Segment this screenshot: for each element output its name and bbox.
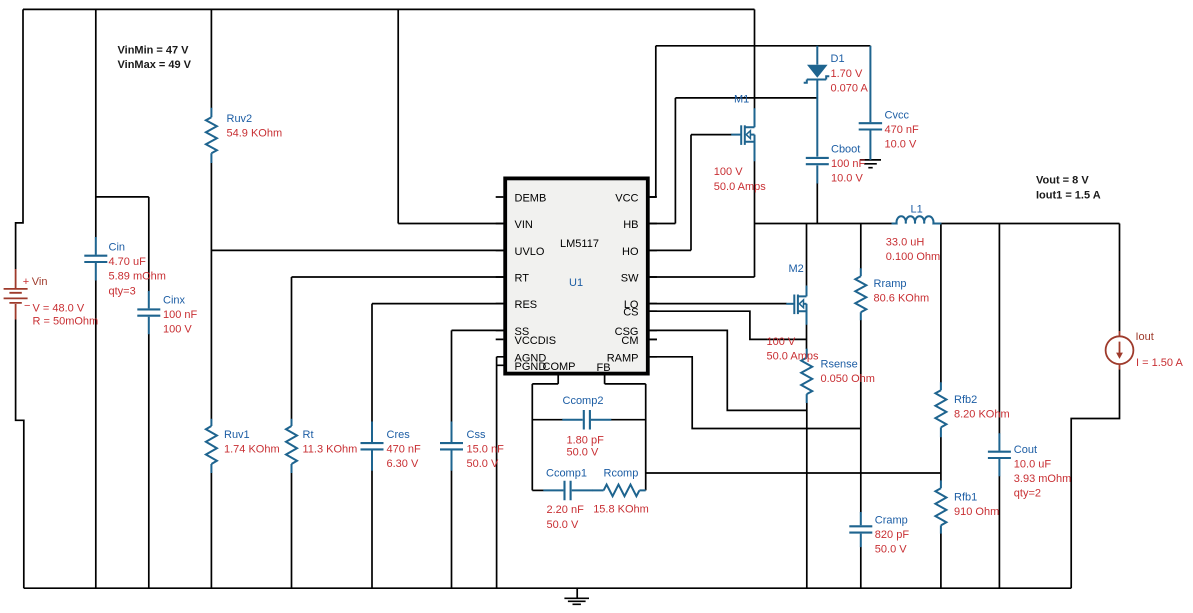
wire M2 drain to SW <box>806 224 808 286</box>
svg-text:+: + <box>23 276 29 288</box>
resistor Ruv2 <box>206 108 217 163</box>
svg-text:Rsense: Rsense <box>821 359 858 371</box>
svg-text:15.8 KOhm: 15.8 KOhm <box>593 504 649 516</box>
transistor M2 (N-MOSFET) <box>786 286 806 325</box>
wire VCC net <box>648 46 870 197</box>
svg-text:Ccomp2: Ccomp2 <box>563 395 604 407</box>
wire Rramp top to SW <box>860 224 862 269</box>
svg-text:Iout: Iout <box>1136 331 1154 343</box>
svg-text:I = 1.50 A: I = 1.50 A <box>1136 357 1183 369</box>
resistor Rcomp <box>592 485 646 497</box>
label Cres <box>387 429 422 470</box>
svg-text:Cboot: Cboot <box>831 144 860 156</box>
wire Cinx bottom <box>148 334 150 588</box>
svg-text:M2: M2 <box>789 263 804 275</box>
wire Ruv2 to Ruv1 <box>210 163 212 420</box>
svg-text:8.20 KOhm: 8.20 KOhm <box>954 408 1010 420</box>
svg-text:FB: FB <box>597 362 611 374</box>
label Cin <box>109 242 166 298</box>
svg-text:11.3 KOhm: 11.3 KOhm <box>303 443 358 455</box>
wire Cout branch <box>998 224 1000 589</box>
svg-text:10.0 uF: 10.0 uF <box>1014 458 1052 470</box>
label output conditions <box>1036 174 1101 201</box>
diode D1 (schottky) <box>804 46 830 157</box>
wire HB to Cboot <box>648 98 817 224</box>
wire CM stub <box>648 338 657 340</box>
capacitor Cboot <box>806 158 829 164</box>
label Rfb1 <box>954 492 999 519</box>
svg-text:Iout1 = 1.5 A: Iout1 = 1.5 A <box>1036 189 1101 201</box>
svg-text:Cinx: Cinx <box>163 294 186 306</box>
svg-text:100 nF: 100 nF <box>831 158 866 170</box>
svg-text:HB: HB <box>623 219 638 231</box>
wire Rfb2 branch <box>940 224 942 474</box>
svg-text:CM: CM <box>621 335 638 347</box>
wire CS net <box>648 311 807 339</box>
label M1 <box>714 93 766 193</box>
wire Cinx top <box>148 197 150 292</box>
wire Rt column <box>291 277 293 588</box>
wire Css column <box>451 330 453 588</box>
label Cboot <box>831 144 866 185</box>
resistor Rsense <box>801 349 812 403</box>
svg-text:50.0 V: 50.0 V <box>567 447 599 459</box>
wire Cin bottom <box>95 280 97 588</box>
svg-text:HO: HO <box>622 246 639 258</box>
wire Vin negative lead <box>16 320 24 589</box>
capacitor Ccomp2 <box>562 410 611 430</box>
label Css <box>467 429 505 470</box>
svg-text:10.0 V: 10.0 V <box>831 173 863 185</box>
svg-text:Vin: Vin <box>32 276 48 288</box>
transistor M1 (N-MOSFET) <box>731 108 754 161</box>
wire Ccomp1 row left <box>532 489 543 491</box>
wire Cboot bottom to SW <box>816 183 818 224</box>
svg-text:50.0 Amps: 50.0 Amps <box>767 350 819 362</box>
voltage source Vin (battery) <box>4 269 28 320</box>
U1 pin stubs left <box>496 197 504 339</box>
label Rsense <box>821 359 875 386</box>
capacitor Cramp <box>849 512 872 547</box>
svg-text:Rfb2: Rfb2 <box>954 394 977 406</box>
capacitor Cin <box>84 237 107 281</box>
wire LO to M2 gate <box>648 303 787 305</box>
wire CSG net <box>648 330 807 410</box>
svg-text:Cramp: Cramp <box>875 514 908 526</box>
label Ccomp2 <box>563 395 605 459</box>
label Vin source <box>23 276 98 328</box>
svg-text:4.70 uF: 4.70 uF <box>109 256 147 268</box>
svg-text:470 nF: 470 nF <box>387 443 422 455</box>
svg-text:Vout = 8 V: Vout = 8 V <box>1036 174 1089 186</box>
svg-text:Ccomp1: Ccomp1 <box>546 468 587 480</box>
svg-text:1.70 V: 1.70 V <box>831 68 863 80</box>
wire SS net <box>452 329 506 331</box>
resistor Ruv1 <box>206 419 217 473</box>
svg-text:Ruv1: Ruv1 <box>224 429 250 441</box>
svg-text:VinMax = 49 V: VinMax = 49 V <box>118 59 192 71</box>
wire RT net <box>292 276 506 278</box>
label Ruv1 <box>224 429 280 456</box>
label Cout <box>1014 444 1071 500</box>
svg-text:qty=3: qty=3 <box>109 285 136 297</box>
svg-text:100 V: 100 V <box>163 324 192 336</box>
svg-text:L1: L1 <box>911 203 923 215</box>
ground bottom rail symbol <box>564 588 589 604</box>
wire SW pin to M1 source <box>648 161 755 277</box>
wire L1 to Vout node <box>941 223 1119 225</box>
wire FB branch <box>605 374 646 491</box>
capacitor Cinx <box>137 291 160 334</box>
wire Rsense bottom to ground <box>806 403 808 589</box>
svg-text:D1: D1 <box>831 53 845 65</box>
label Ccomp1 <box>546 468 587 531</box>
wire VIN pin net <box>398 9 505 223</box>
wire Ruv2 top <box>210 9 212 108</box>
capacitor Cvcc <box>859 46 882 160</box>
wire RAMP net <box>648 357 861 429</box>
svg-text:CS: CS <box>623 307 638 319</box>
label Cramp <box>875 514 910 555</box>
svg-text:RT: RT <box>515 273 530 285</box>
svg-text:VCCDIS: VCCDIS <box>515 335 557 347</box>
svg-text:M1: M1 <box>734 93 749 105</box>
wire Vin positive lead <box>16 9 23 269</box>
svg-text:0.050 Ohm: 0.050 Ohm <box>821 373 875 385</box>
label Cvcc <box>885 109 920 150</box>
svg-text:2.20 nF: 2.20 nF <box>547 504 585 516</box>
svg-text:0.100 Ohm: 0.100 Ohm <box>886 251 940 263</box>
wire Cin to Cinx link <box>96 196 149 198</box>
svg-text:SW: SW <box>621 273 639 285</box>
label L1 <box>886 203 940 263</box>
svg-text:Ruv2: Ruv2 <box>227 113 253 125</box>
svg-text:V = 48.0 V: V = 48.0 V <box>33 302 85 314</box>
label D1 <box>831 53 869 94</box>
wire Cramp bottom to ground <box>860 547 862 588</box>
wire RES net <box>372 303 505 305</box>
svg-text:VinMin = 47 V: VinMin = 47 V <box>118 44 190 56</box>
wire Rramp bottom to Cramp <box>860 320 862 513</box>
label Cinx <box>163 294 198 335</box>
svg-text:qty=2: qty=2 <box>1014 488 1041 500</box>
svg-text:820 pF: 820 pF <box>875 529 910 541</box>
svg-text:LM5117: LM5117 <box>560 238 599 250</box>
svg-text:Rcomp: Rcomp <box>604 468 639 480</box>
svg-text:50.0 V: 50.0 V <box>875 544 907 556</box>
svg-text:Rt: Rt <box>303 429 314 441</box>
label Rfb2 <box>954 394 1010 421</box>
svg-text:VIN: VIN <box>515 219 533 231</box>
wire Iout branch <box>1071 224 1119 589</box>
svg-text:1.80 pF: 1.80 pF <box>567 434 605 446</box>
inductor L1 <box>892 216 942 223</box>
svg-text:33.0 uH: 33.0 uH <box>886 237 925 249</box>
wire Rfb1 branch <box>940 473 942 588</box>
svg-text:Cin: Cin <box>109 242 126 254</box>
svg-text:1.74 KOhm: 1.74 KOhm <box>224 443 280 455</box>
svg-text:R = 50mOhm: R = 50mOhm <box>33 316 99 328</box>
label Ruv2 <box>227 113 283 140</box>
svg-text:U1: U1 <box>569 277 583 289</box>
svg-text:VCC: VCC <box>615 193 638 205</box>
wire COMP branch <box>532 374 558 491</box>
svg-text:−: − <box>24 300 30 312</box>
svg-text:15.0 nF: 15.0 nF <box>467 443 505 455</box>
wire M2 source to Rsense <box>806 325 808 350</box>
svg-text:RES: RES <box>515 299 538 311</box>
label Rramp <box>874 278 930 305</box>
svg-text:6.30 V: 6.30 V <box>387 458 419 470</box>
svg-text:54.9 KOhm: 54.9 KOhm <box>227 127 283 139</box>
resistor Rramp <box>855 268 866 320</box>
wire top VIN rail <box>23 8 755 10</box>
svg-text:50.0 Amps: 50.0 Amps <box>714 181 766 193</box>
U1 bottom pin labels COMP FB <box>543 361 611 374</box>
svg-text:5.89 mOhm: 5.89 mOhm <box>109 271 166 283</box>
label Iout source <box>1136 331 1184 369</box>
svg-text:COMP: COMP <box>543 361 576 373</box>
svg-text:100 V: 100 V <box>767 336 796 348</box>
capacitor Ccomp1 <box>543 481 592 500</box>
wire Cres column <box>371 304 373 589</box>
svg-text:100 V: 100 V <box>714 166 743 178</box>
svg-text:Cvcc: Cvcc <box>885 109 910 121</box>
op-amp/controller U1 LM5117 box <box>505 178 648 373</box>
wire AGND PGND to ground <box>497 357 505 588</box>
capacitor Cres <box>361 422 384 471</box>
wire SW node to L1 <box>755 223 892 225</box>
ground Cvcc symbol <box>860 160 881 168</box>
current source Iout <box>1106 331 1134 370</box>
label Rt <box>303 429 358 456</box>
label M2 <box>767 263 819 362</box>
svg-text:50.0 V: 50.0 V <box>547 519 579 531</box>
resistor Rfb2 <box>935 382 946 437</box>
svg-text:10.0 V: 10.0 V <box>885 139 917 151</box>
svg-text:DEMB: DEMB <box>515 193 547 205</box>
wire M1 drain to VIN rail <box>754 9 756 108</box>
svg-text:Cout: Cout <box>1014 444 1037 456</box>
wire Ruv1 bottom <box>210 473 212 589</box>
wire Ccomp2 row <box>532 419 645 421</box>
label input conditions <box>118 44 192 71</box>
U1 left pin labels <box>515 193 557 373</box>
wire FB to feedback divider <box>646 472 941 474</box>
U1 pin stubs right <box>650 197 657 357</box>
svg-text:910 Ohm: 910 Ohm <box>954 506 999 518</box>
svg-text:RAMP: RAMP <box>607 352 639 364</box>
svg-text:Cres: Cres <box>387 429 411 441</box>
U1 right pin labels <box>607 193 639 365</box>
wire bottom ground rail <box>24 587 1071 589</box>
wire UVLO net <box>211 249 505 251</box>
resistor Rfb1 <box>935 480 946 533</box>
label Rcomp <box>593 468 649 516</box>
wire HO to M1 gate <box>648 135 732 251</box>
capacitor Cout <box>988 433 1011 476</box>
svg-text:0.070 A: 0.070 A <box>831 82 869 94</box>
svg-text:UVLO: UVLO <box>515 246 545 258</box>
svg-text:Rfb1: Rfb1 <box>954 492 977 504</box>
svg-text:80.6 KOhm: 80.6 KOhm <box>874 292 930 304</box>
svg-text:3.93 mOhm: 3.93 mOhm <box>1014 473 1071 485</box>
wire Cboot top lead <box>816 165 818 183</box>
wire Cin top <box>95 9 97 237</box>
svg-text:Css: Css <box>467 429 486 441</box>
resistor Rt <box>286 419 297 473</box>
svg-text:470 nF: 470 nF <box>885 124 920 136</box>
svg-text:50.0 V: 50.0 V <box>467 458 499 470</box>
svg-text:100 nF: 100 nF <box>163 309 198 321</box>
capacitor Css <box>440 422 463 471</box>
svg-text:Rramp: Rramp <box>874 278 907 290</box>
